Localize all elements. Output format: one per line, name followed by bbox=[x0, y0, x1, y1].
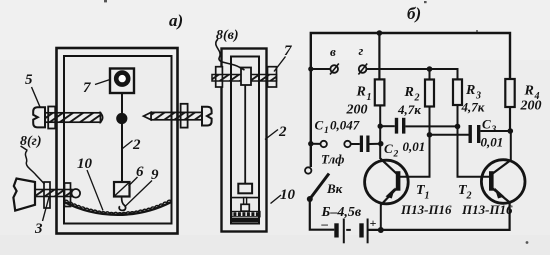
junction dot C1 tap bbox=[378, 141, 383, 146]
screw right (7 side): flange plate bbox=[181, 104, 188, 128]
enclosure inner box bbox=[64, 56, 172, 224]
svg-text:Тлф: Тлф bbox=[321, 152, 344, 167]
svg-text:0,01: 0,01 bbox=[403, 139, 426, 154]
svg-text:Вк: Вк bbox=[326, 181, 343, 196]
resistor R4 bbox=[505, 79, 541, 114]
svg-text:2: 2 bbox=[132, 137, 141, 153]
scan specks bbox=[104, 0, 528, 244]
enclosure outer box (device a front view) bbox=[57, 48, 178, 234]
svg-text:1: 1 bbox=[367, 92, 372, 103]
side view: shelf line bbox=[232, 197, 259, 199]
svg-text:а): а) bbox=[169, 11, 183, 30]
wire R2 to T1 base bbox=[400, 107, 430, 177]
svg-text:б): б) bbox=[407, 4, 421, 23]
svg-text:7: 7 bbox=[83, 80, 91, 96]
svg-text:+: + bbox=[370, 216, 377, 230]
screw 5 left: flange plate bbox=[48, 107, 55, 129]
wire bias rail g to R3 bbox=[366, 69, 457, 79]
wire T2 collector bbox=[510, 131, 512, 161]
weight 6 square with diagonal bbox=[114, 182, 130, 197]
label 8(g) with wavy pointer bbox=[20, 134, 45, 184]
label 3 with pointer bbox=[34, 197, 49, 237]
label 10 with pointer bbox=[77, 156, 103, 211]
ball weight on rod bbox=[116, 113, 127, 124]
resistor R2 bbox=[397, 80, 434, 118]
bracket 7 square with bearing bbox=[110, 69, 134, 94]
wire bottom rail bbox=[368, 203, 510, 230]
svg-text:П13-П16: П13-П16 bbox=[461, 202, 513, 217]
resistor R1 bbox=[346, 79, 385, 117]
hook 9 bbox=[119, 197, 125, 211]
switch Vk bbox=[305, 167, 343, 202]
dish 10 serrated sector bbox=[64, 200, 172, 215]
wire C3 left lead bbox=[430, 134, 469, 136]
label 8(v) with wavy pointer bbox=[216, 28, 245, 70]
junction dot C2 tap bbox=[378, 124, 383, 129]
capacitor C1 bbox=[315, 118, 381, 153]
side view: pedestal bbox=[241, 204, 249, 211]
screw 5 left: head with slot bbox=[33, 107, 45, 127]
svg-text:R: R bbox=[404, 85, 414, 100]
label 9 with pointer bbox=[126, 167, 160, 206]
side view: comb strip 10 bbox=[232, 211, 260, 216]
label 10 side with pointer bbox=[271, 187, 296, 204]
battery B-4.5v bbox=[321, 205, 377, 243]
side view: enclosure outer box bbox=[222, 49, 267, 232]
svg-text:2: 2 bbox=[466, 191, 472, 202]
label T1 bbox=[416, 183, 430, 202]
svg-text:3: 3 bbox=[491, 125, 497, 135]
svg-text:8(в): 8(в) bbox=[216, 28, 239, 43]
capacitor C3 bbox=[469, 117, 511, 150]
svg-text:9: 9 bbox=[151, 167, 159, 183]
svg-text:10: 10 bbox=[77, 156, 93, 172]
svg-text:г: г bbox=[359, 43, 364, 58]
wing screw 3: ball tip bbox=[72, 189, 81, 198]
svg-text:10: 10 bbox=[280, 187, 296, 203]
svg-text:3: 3 bbox=[34, 221, 43, 237]
wire switch to battery bbox=[310, 199, 335, 230]
side view: left clamp plate bbox=[216, 67, 223, 87]
label 2 with pointer bbox=[123, 137, 142, 153]
svg-text:–: – bbox=[321, 216, 329, 231]
svg-text:П13-П16: П13-П16 bbox=[400, 202, 452, 217]
side view: hatched axle rod bbox=[212, 75, 277, 82]
svg-text:4,7к: 4,7к bbox=[397, 102, 421, 117]
svg-text:С: С bbox=[384, 141, 393, 156]
junction dot terminal v bbox=[308, 66, 313, 71]
screw 5 left: hatched shaft bbox=[45, 113, 103, 122]
svg-text:0,047: 0,047 bbox=[330, 118, 360, 133]
screw right: hatched shaft with pointed tip bbox=[144, 112, 203, 119]
svg-text:4,7к: 4,7к bbox=[461, 100, 485, 115]
svg-text:R: R bbox=[465, 83, 475, 98]
rod 2 (pendulum) bbox=[121, 93, 123, 183]
svg-text:R: R bbox=[356, 85, 366, 100]
wire top rail bbox=[311, 33, 510, 167]
side view: right clamp plate bbox=[268, 67, 277, 87]
svg-text:200: 200 bbox=[346, 103, 368, 118]
wire R4 bottom to C3 node bbox=[509, 107, 511, 131]
label 2 side with pointer bbox=[265, 124, 287, 140]
label 6 with pointer bbox=[129, 164, 145, 186]
junction dot T1 emitter bbox=[378, 227, 384, 233]
label 7 with pointer bbox=[83, 80, 110, 97]
wing screw 3: hatched shaft bbox=[35, 190, 72, 197]
wing screw 3: flange plates bbox=[44, 182, 71, 208]
wing screw 3 lower-left: wing head bbox=[13, 179, 35, 211]
resistor R3 bbox=[453, 79, 485, 114]
svg-text:1: 1 bbox=[324, 126, 329, 136]
wire R2 top lead bbox=[429, 69, 431, 80]
side view: pendulum rod bbox=[244, 85, 246, 184]
svg-text:1: 1 bbox=[425, 191, 430, 202]
label T2 bbox=[458, 183, 472, 202]
screw right: head with slot bbox=[202, 107, 212, 126]
svg-text:R: R bbox=[524, 84, 534, 99]
junction dot T1 base node bbox=[427, 132, 433, 138]
side view: base bar bbox=[232, 218, 259, 222]
svg-text:8(г): 8(г) bbox=[20, 134, 42, 149]
svg-text:2: 2 bbox=[278, 124, 287, 140]
transistor T2 bbox=[481, 160, 525, 204]
wire R1 branch vertical upper bbox=[378, 33, 380, 79]
svg-text:5: 5 bbox=[25, 72, 33, 88]
transistor T1 bbox=[365, 159, 409, 205]
terminal g bbox=[358, 43, 367, 75]
capacitor C2 bbox=[380, 118, 425, 160]
side view: center holder bbox=[241, 68, 251, 86]
wire C2 to T2 base node bbox=[405, 125, 457, 127]
wire T1 emitter lead bbox=[380, 205, 382, 231]
terminal v bbox=[330, 44, 339, 75]
side view: enclosure inner box bbox=[231, 57, 259, 224]
junction dot R2 top bbox=[427, 66, 433, 72]
junction dot R3 bottom node bbox=[455, 124, 461, 130]
label 5 with pointer bbox=[25, 72, 40, 107]
svg-text:С: С bbox=[315, 118, 324, 133]
Tlf terminal pair bbox=[308, 141, 351, 167]
side view: stem bbox=[244, 198, 247, 205]
wire R3 to T2 base bbox=[458, 105, 490, 177]
label 7 right with pointer bbox=[274, 43, 292, 72]
side view: weight block bbox=[238, 184, 252, 194]
wire T1 collector vertical bbox=[379, 105, 381, 159]
junction dot top rail bbox=[377, 30, 383, 36]
svg-text:0,01: 0,01 bbox=[481, 135, 504, 150]
svg-text:С: С bbox=[482, 117, 491, 132]
svg-text:в: в bbox=[330, 44, 336, 59]
svg-text:2: 2 bbox=[393, 150, 399, 160]
wire to terminal v bbox=[311, 68, 330, 70]
junction dot C3 right node bbox=[508, 128, 514, 134]
svg-text:200: 200 bbox=[520, 99, 542, 114]
